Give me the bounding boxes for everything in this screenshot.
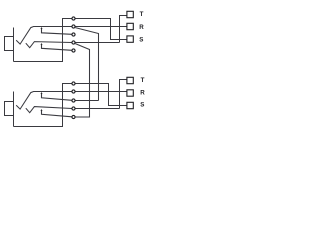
wire J2 frame to tip terminal bus	[14, 84, 72, 127]
svg-text:R: R	[139, 24, 144, 31]
terminal circle J1 ring	[72, 33, 75, 36]
terminal circle J2 ring	[72, 99, 75, 102]
jack J2 tip spring	[16, 92, 72, 110]
wire J2 ring row stub to D1	[75, 100, 98, 102]
punch square R1	[127, 23, 133, 29]
wire J1 tip-normal diagonal down to J2 ring row	[75, 28, 98, 101]
jack J1 plug barrel	[5, 37, 14, 51]
terminal circle J2 ring-normal	[72, 107, 75, 110]
jack J2 ring normal contact arrow	[41, 109, 43, 111]
jack J1 ring normal contact arrow	[41, 43, 43, 45]
jack J2 frame vertical	[13, 92, 15, 127]
svg-text:S: S	[139, 36, 143, 43]
svg-text:R: R	[140, 89, 145, 96]
jack J1 ring spring	[26, 42, 72, 48]
terminal circle J1 ring-normal	[72, 41, 75, 44]
jack J1 frame vertical	[13, 28, 15, 62]
terminal circle J2 tip-normal	[72, 90, 75, 93]
wire J1 frame to tip terminal bus	[14, 19, 72, 62]
terminal circle J1 tip	[72, 17, 75, 20]
terminal circle J2 tip	[72, 82, 75, 85]
wire J1 ring-normal diagonal down to J2 sleeve row	[75, 44, 89, 117]
wire J1 tip-normal to R1 square	[75, 26, 126, 28]
wire J2 tip-normal to R2 square	[75, 91, 126, 93]
svg-text:T: T	[140, 11, 144, 18]
jack J1 tip normal contact arrow	[41, 27, 43, 29]
wire T2 square down to S row	[120, 80, 127, 109]
svg-text:T: T	[141, 77, 145, 84]
punch square S2	[127, 102, 133, 108]
jack J2 ring spring	[26, 107, 72, 113]
terminal circle J1 tip-normal	[72, 25, 75, 28]
terminal circle J1 sleeve	[72, 49, 75, 52]
punch square R2	[127, 90, 133, 96]
jack J2 plug barrel	[5, 102, 14, 116]
wire J2 ring-normal row	[75, 108, 119, 110]
punch square T2	[127, 77, 133, 83]
wire J2 tip to S row	[75, 84, 126, 106]
jack J1 tip spring	[16, 27, 72, 45]
terminal circle J2 sleeve	[72, 115, 75, 118]
punch square S1	[127, 36, 133, 42]
svg-text:S: S	[140, 102, 144, 109]
jack J2 tip normal contact arrow	[41, 92, 43, 94]
wire J1 tip to S row	[75, 19, 126, 40]
wire T1 square down to S row	[120, 16, 127, 43]
wire J1 ring-normal row	[75, 42, 119, 44]
punch square T1	[127, 11, 133, 17]
